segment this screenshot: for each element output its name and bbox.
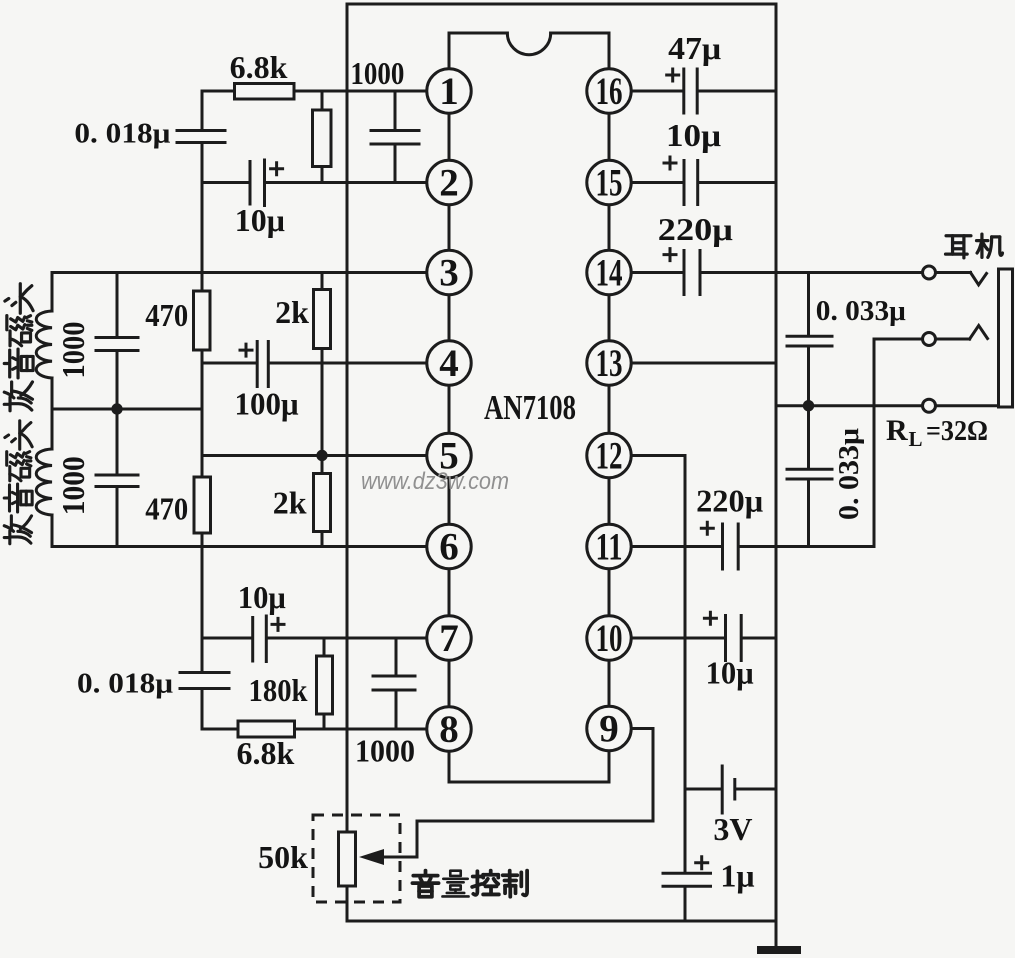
- svg-text:10μ: 10μ: [706, 655, 754, 691]
- resistor 470 bottom: [194, 477, 211, 533]
- svg-text:2: 2: [439, 162, 459, 205]
- wire pot bottom lead: [346, 886, 349, 921]
- svg-text:6.8k: 6.8k: [230, 49, 288, 85]
- capacitor head-top 1000p plates: [96, 338, 138, 351]
- node 2k junction pin5 row: [316, 450, 327, 461]
- capacitor 0.018u top plates: [177, 131, 225, 143]
- plus 220u right-bottom: [701, 522, 713, 534]
- svg-text:100μ: 100μ: [235, 386, 299, 422]
- svg-text:3V: 3V: [713, 811, 752, 847]
- wire row11 (220u bottom row): [630, 545, 874, 548]
- wire outer left vertical (to volume pot): [346, 4, 349, 832]
- wire resistor chain x=322 top: [321, 91, 324, 183]
- earphone ring contact: [970, 326, 988, 340]
- volume control dashed box: [313, 815, 400, 902]
- resistor 2k top: [314, 290, 331, 349]
- svg-text:50k: 50k: [258, 839, 308, 875]
- svg-text:0. 018μ: 0. 018μ: [74, 118, 171, 150]
- earphone jack terminal top: [923, 266, 936, 279]
- svg-text:13: 13: [596, 342, 623, 385]
- plus 1u: [696, 857, 708, 869]
- svg-text:2k: 2k: [275, 294, 309, 330]
- wire battery row: [685, 788, 776, 791]
- wire jack bottom row: [776, 404, 999, 407]
- inductor playback head bottom (coil): [36, 449, 52, 515]
- node head junction: [111, 403, 122, 414]
- wire 0.033 chain x=808.5: [807, 273, 810, 547]
- IC notch: [507, 33, 550, 55]
- wire row8 left (pin8 / 6.8k row): [202, 728, 428, 731]
- svg-text:470: 470: [145, 491, 188, 527]
- pin 10: [587, 616, 631, 660]
- svg-text:10μ: 10μ: [235, 202, 285, 238]
- svg-text:180k: 180k: [249, 672, 308, 708]
- svg-text:12: 12: [596, 435, 623, 478]
- plus 47u: [667, 69, 679, 81]
- svg-text:6: 6: [439, 526, 459, 569]
- svg-text:=32Ω: =32Ω: [926, 415, 988, 447]
- wire head left vertical x=52: [51, 273, 54, 547]
- svg-text:47μ: 47μ: [668, 30, 721, 66]
- svg-text:10: 10: [596, 617, 623, 660]
- IC left edge: [448, 33, 451, 782]
- wire row6 left (pin6 / head bottom rail): [52, 545, 428, 548]
- capacitor 0.018u bottom plates: [180, 673, 229, 689]
- ground: [757, 946, 801, 954]
- pin 9: [587, 706, 631, 750]
- svg-text:1μ: 1μ: [720, 858, 754, 894]
- label head bottom 放音磁头: [4, 516, 31, 544]
- svg-text:10μ: 10μ: [238, 579, 286, 615]
- wire pin12 branch: [630, 454, 685, 457]
- plus 10u top-left: [271, 163, 283, 175]
- capacitor 10u right-top plates: [684, 161, 698, 205]
- wire row13 right (pin13 to rail): [630, 362, 776, 365]
- earphone jack terminal middle: [923, 333, 936, 346]
- wire 1000pF cap vertical bottom x=396: [395, 638, 398, 729]
- wire resistor chain x=322 middle: [321, 273, 324, 547]
- plus 10u right-bottom: [704, 612, 716, 624]
- svg-text:7: 7: [439, 617, 459, 660]
- svg-text:1000: 1000: [55, 322, 91, 379]
- wire head middle junction row: [52, 408, 202, 411]
- pin 5: [427, 433, 471, 477]
- svg-text:3: 3: [439, 252, 459, 295]
- capacitor 47u plates: [684, 69, 697, 113]
- capacitor 0.033u upper plates: [787, 336, 832, 346]
- label 音量控制: [412, 871, 438, 897]
- plus 10u bottom-left: [272, 618, 284, 630]
- battery 3V plates: [721, 766, 724, 813]
- wire row16 right (47u row): [630, 90, 776, 93]
- svg-text:10μ: 10μ: [666, 117, 721, 153]
- svg-text:0. 018μ: 0. 018μ: [77, 668, 174, 700]
- wire row7 left (pin7 / 10u row): [202, 637, 428, 640]
- wire row10 (10u bottom row): [630, 637, 776, 640]
- label head top 放音磁头: [4, 382, 32, 411]
- pin 12: [587, 433, 631, 477]
- svg-text:2k: 2k: [273, 485, 307, 521]
- pin 8: [427, 707, 471, 751]
- wire battery vertical x=685: [684, 456, 687, 922]
- svg-text:220μ: 220μ: [658, 211, 733, 247]
- wire jack middle branch x=874: [873, 339, 876, 547]
- capacitor 0.033u lower plates: [787, 469, 832, 479]
- wire resistor chain x=324 bottom (180k): [323, 638, 326, 729]
- wire outer top border: [347, 3, 776, 6]
- inductor playback head top (coil): [36, 311, 52, 378]
- wire bottom rail: [347, 920, 776, 923]
- svg-text:1: 1: [439, 70, 459, 113]
- pin 2: [427, 160, 471, 204]
- wire row3 left (pin3 / head top rail): [52, 271, 428, 274]
- capacitor 1000p bottom plates: [373, 676, 415, 690]
- svg-text:www.dz3w.com: www.dz3w.com: [361, 468, 509, 495]
- wire row15 right (10u row): [630, 181, 776, 184]
- IC bottom edge: [449, 781, 609, 784]
- svg-text:1000: 1000: [355, 733, 415, 769]
- svg-text:AN7108: AN7108: [484, 388, 576, 427]
- op IC body AN7108: [449, 32, 507, 35]
- svg-text:0. 033μ: 0. 033μ: [816, 295, 907, 327]
- pin 4: [427, 341, 471, 385]
- potentiometer 50k body: [339, 832, 356, 886]
- capacitor 220u right-bottom plates: [723, 524, 739, 569]
- resistor 180k: [317, 656, 333, 714]
- pin 15: [587, 160, 631, 204]
- resistor 470 top: [194, 291, 211, 350]
- capacitor 10u right-bottom plates: [726, 616, 742, 661]
- capacitor 10u bottom-left plates: [253, 616, 267, 662]
- capacitor 100u plates: [257, 342, 268, 387]
- capacitor 220u right-top plates: [684, 251, 700, 295]
- svg-text:14: 14: [596, 252, 623, 295]
- pin 11: [587, 524, 631, 568]
- svg-text:L: L: [909, 427, 923, 451]
- svg-text:0. 033μ: 0. 033μ: [833, 427, 865, 520]
- wire jack middle row: [874, 338, 970, 341]
- wire row1 left (pin1 to 6.8k branch): [202, 90, 428, 93]
- svg-text:11: 11: [596, 526, 623, 569]
- potentiometer wiper arrow: [359, 849, 384, 865]
- svg-text:8: 8: [439, 708, 459, 751]
- capacitor 1000p top plates: [371, 131, 419, 145]
- wire 1000pF cap vertical top x=395: [394, 91, 397, 183]
- pin 1: [427, 69, 471, 113]
- resistor vertical top (x=322): [313, 110, 332, 167]
- svg-text:1000: 1000: [55, 456, 91, 515]
- pin 6: [427, 524, 471, 568]
- node 0.033 junction: [803, 400, 814, 411]
- svg-text:6.8k: 6.8k: [237, 735, 295, 771]
- capacitor head-bottom 1000p plates: [96, 475, 138, 487]
- svg-text:R: R: [886, 414, 908, 447]
- wire right rail: [775, 4, 778, 946]
- resistor 2k bottom: [314, 474, 331, 532]
- wire row4 left (pin4 / 100u row): [202, 362, 428, 365]
- earphone plug bar: [999, 269, 1013, 407]
- capacitor 1u plates: [663, 873, 711, 886]
- pin 3: [427, 250, 471, 294]
- pin 16: [587, 69, 631, 113]
- plus 100u: [240, 344, 252, 356]
- wire row14 right (220u to earphone): [630, 271, 971, 274]
- wire head cap vertical x=117: [116, 273, 119, 547]
- earphone jack terminal bottom: [923, 399, 936, 412]
- pin 14: [587, 250, 631, 294]
- pin 13: [587, 341, 631, 385]
- resistor 6.8k top: [235, 84, 295, 100]
- label 耳机: [946, 236, 971, 258]
- resistor 6.8k bottom: [238, 721, 295, 737]
- IC right edge: [608, 33, 611, 782]
- svg-text:4: 4: [439, 342, 459, 385]
- svg-text:15: 15: [596, 162, 623, 205]
- svg-text:220μ: 220μ: [696, 483, 763, 519]
- plus 220u right-top: [664, 249, 676, 261]
- plus 10u right-top: [664, 157, 676, 169]
- wire row5 left (pin5 row): [202, 454, 428, 457]
- svg-text:1000: 1000: [350, 55, 404, 91]
- svg-text:16: 16: [596, 70, 623, 113]
- wire row2 left (pin2 row): [202, 181, 428, 184]
- pin 7: [427, 616, 471, 660]
- capacitor 10u top-left plates: [250, 160, 265, 206]
- wire pin9 to volume control: [384, 729, 653, 858]
- svg-text:470: 470: [145, 297, 188, 333]
- svg-text:9: 9: [599, 708, 619, 751]
- earphone tip contact: [971, 273, 987, 285]
- wire left branch vertical x=202: [201, 91, 204, 729]
